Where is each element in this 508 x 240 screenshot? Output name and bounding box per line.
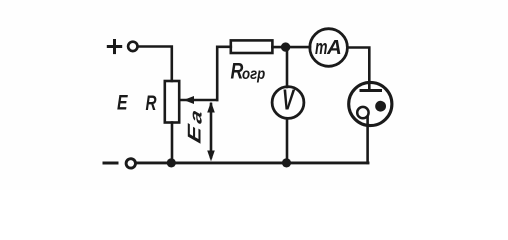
junction node: Rogr output / voltmeter tap bbox=[281, 42, 290, 51]
terminal + (input terminal, open circle) bbox=[128, 42, 137, 51]
wire: mA to tube anode lead bbox=[348, 48, 370, 90]
wire: tube cathode to negative rail bbox=[366, 117, 369, 163]
resistor Rogr body bbox=[231, 40, 273, 53]
negative rail wire bbox=[136, 161, 368, 164]
Ea measuring arrow (double headed) bbox=[207, 102, 215, 162]
wire: potentiometer R bottom to negative rail bbox=[171, 123, 174, 163]
junction: pot bottom on negative rail bbox=[167, 158, 176, 167]
tube gas-fill dot bbox=[375, 101, 386, 112]
svg-text:Eа: Eа bbox=[184, 107, 206, 146]
svg-text:V: V bbox=[282, 85, 295, 117]
tube anode bar bbox=[361, 89, 381, 92]
svg-text:m: m bbox=[315, 37, 328, 59]
potentiometer R body bbox=[165, 81, 179, 123]
wire: voltmeter V to negative rail bbox=[286, 118, 289, 162]
label - (negative polarity mark) bbox=[104, 162, 117, 165]
milliammeter mA body bbox=[310, 29, 348, 67]
tube cathode circle bbox=[357, 107, 368, 118]
wire: Rogr to milliammeter mA bbox=[272, 46, 310, 49]
wire: wiper up to resistor Rogr bbox=[217, 47, 231, 100]
tube VL envelope (gas-filled diode) bbox=[349, 82, 392, 125]
svg-text:R: R bbox=[146, 92, 158, 115]
svg-text:огр: огр bbox=[242, 66, 265, 83]
svg-text:A: A bbox=[326, 36, 342, 59]
label + (positive polarity mark) bbox=[108, 41, 120, 53]
junction: voltmeter on negative rail bbox=[282, 158, 291, 167]
svg-text:E: E bbox=[117, 91, 128, 115]
wire: junction down to voltmeter V bbox=[286, 47, 289, 87]
voltmeter V body bbox=[272, 87, 304, 119]
terminal - (open circle) bbox=[126, 159, 135, 168]
wiper arrow of potentiometer R bbox=[179, 96, 217, 104]
wire: + terminal to potentiometer R top bbox=[138, 47, 172, 82]
